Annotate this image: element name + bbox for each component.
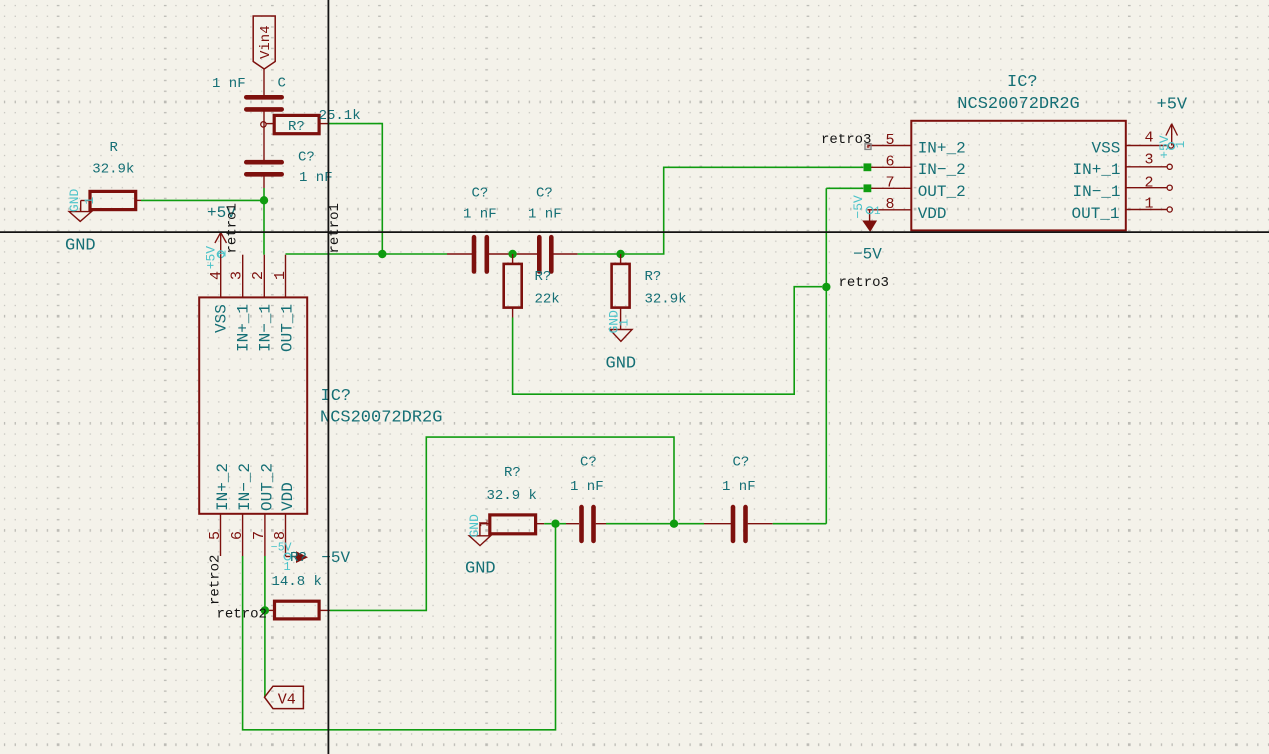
svg-text:IN+_1: IN+_1	[235, 304, 253, 352]
svg-text:IN−_2: IN−_2	[918, 161, 966, 179]
svg-text:1 nF: 1 nF	[212, 76, 246, 92]
svg-text:IN−_2: IN−_2	[236, 463, 254, 511]
wire C? down to node	[263, 174, 265, 188]
op-amp IC? NCS20072DR2G (right)	[911, 73, 1126, 230]
wire pin 7 down	[264, 556, 266, 697]
svg-text:IN−_1: IN−_1	[1073, 183, 1121, 201]
svg-text:VDD: VDD	[918, 205, 947, 223]
svg-text:25.1k: 25.1k	[319, 108, 361, 124]
wire to node	[489, 253, 509, 255]
pin 2 IN-_1	[250, 255, 274, 352]
capacitor C? 1nF (mid 2)	[528, 186, 562, 272]
power -5V (right IC pin 8)	[851, 195, 882, 264]
svg-text:−5V: −5V	[853, 246, 882, 264]
svg-text:C?: C?	[733, 455, 750, 471]
junction mid 2	[616, 250, 624, 258]
wire junction to cap	[560, 523, 566, 525]
svg-text:+5V: +5V	[1157, 96, 1188, 115]
junction retro2	[261, 606, 269, 614]
svg-text:GND: GND	[65, 236, 96, 255]
svg-text:R: R	[110, 140, 119, 156]
svg-text:+5V: +5V	[1157, 135, 1172, 159]
junction mid 1	[508, 250, 516, 258]
wire junction to cap (bottom 2)	[678, 523, 704, 525]
junction node	[260, 196, 268, 204]
svg-text:C: C	[278, 76, 286, 92]
resistor R? 25.1k	[261, 108, 361, 135]
svg-text:5: 5	[207, 531, 224, 540]
svg-text:8: 8	[272, 531, 289, 540]
pin 1 OUT_1	[272, 255, 297, 352]
resistor R? 14.8k	[269, 550, 330, 619]
svg-text:retro3: retro3	[839, 275, 889, 291]
svg-text:VSS: VSS	[213, 304, 231, 333]
wire C to C?	[263, 109, 265, 162]
wire cap to junction 2	[596, 523, 606, 525]
svg-text:IN−_1: IN−_1	[257, 304, 275, 352]
wire R? output	[329, 124, 382, 254]
svg-text:IC?: IC?	[321, 387, 352, 406]
svg-text:1 nF: 1 nF	[570, 479, 604, 495]
junction feedback	[378, 250, 386, 258]
svg-text:2: 2	[250, 271, 267, 280]
svg-text:IN+_1: IN+_1	[1073, 161, 1121, 179]
svg-text:Vin4: Vin4	[258, 25, 274, 59]
capacitor C 1nF	[212, 76, 286, 110]
svg-text:C?: C?	[536, 186, 553, 202]
junction bottom 2	[670, 520, 678, 528]
svg-text:R?: R?	[504, 465, 521, 481]
wire R to junction	[544, 523, 551, 525]
capacitor C? 1nF (bottom 2)	[722, 455, 756, 541]
svg-text:1: 1	[617, 319, 632, 327]
svg-text:−5V: −5V	[851, 195, 866, 219]
svg-text:retro2: retro2	[217, 607, 267, 623]
pin 7 OUT_2	[251, 463, 276, 556]
svg-text:OUT_2: OUT_2	[259, 463, 277, 511]
wire cap to retro3 vertical	[748, 523, 773, 525]
svg-text:IC?: IC?	[1007, 73, 1038, 92]
svg-text:5: 5	[886, 132, 895, 149]
pin 3 IN+_1	[228, 255, 252, 352]
svg-text:1 nF: 1 nF	[528, 207, 562, 223]
power +5V (right IC pin 4)	[1157, 96, 1189, 159]
svg-text:3: 3	[1145, 152, 1154, 169]
junction bottom 1	[551, 520, 559, 528]
svg-text:retro2: retro2	[208, 555, 224, 605]
svg-text:C?: C?	[472, 186, 489, 202]
wire retro3 vertical	[825, 188, 827, 523]
svg-text:1: 1	[272, 271, 289, 280]
resistor R? 22k	[504, 254, 560, 318]
svg-text:R?: R?	[290, 550, 307, 566]
svg-text:C?: C?	[298, 150, 315, 166]
svg-text:1: 1	[1174, 141, 1188, 149]
wire node2 right and up to IN-_2	[625, 167, 864, 254]
ground GND (bottom R)	[465, 514, 496, 579]
pin 2 IN-_1	[1073, 175, 1173, 202]
pin 6 IN-_2	[864, 153, 966, 179]
svg-text:C?: C?	[580, 455, 597, 471]
ground GND (left)	[65, 188, 97, 255]
svg-text:1 nF: 1 nF	[463, 207, 497, 223]
svg-text:GND: GND	[67, 188, 82, 212]
pin 3 IN+_1	[1073, 152, 1173, 180]
svg-text:VSS: VSS	[1092, 139, 1121, 157]
svg-text:V4: V4	[278, 691, 296, 708]
svg-text:4: 4	[1145, 130, 1154, 147]
svg-text:R?: R?	[288, 119, 305, 135]
svg-text:−5V: −5V	[321, 549, 350, 567]
svg-text:3: 3	[228, 271, 245, 280]
ground GND (mid)	[606, 310, 637, 374]
svg-text:retro1: retro1	[327, 203, 343, 253]
svg-text:1: 1	[1145, 195, 1154, 212]
wire OUT_2	[826, 187, 863, 189]
svg-text:GND: GND	[606, 355, 637, 374]
resistor R? 32.9k (mid)	[612, 254, 687, 318]
svg-text:NCS20072DR2G: NCS20072DR2G	[320, 408, 442, 427]
pin 4 VSS	[208, 255, 231, 333]
svg-text:1: 1	[874, 206, 881, 218]
svg-text:1: 1	[82, 197, 97, 205]
svg-text:2: 2	[1145, 175, 1154, 192]
svg-text:22k: 22k	[535, 292, 560, 308]
svg-text:R?: R?	[535, 269, 552, 285]
pin 6 IN-_2	[229, 463, 254, 556]
wire node to R	[141, 199, 264, 201]
pin 1 OUT_1	[1072, 195, 1173, 223]
hierarchical label V4	[265, 686, 304, 708]
svg-text:14.8 k: 14.8 k	[272, 574, 322, 590]
pin 5 IN+_2	[865, 132, 966, 158]
svg-text:7: 7	[886, 175, 895, 192]
resistor R 32.9k	[90, 140, 136, 210]
svg-text:NCS20072DR2G: NCS20072DR2G	[957, 95, 1079, 114]
svg-text:6: 6	[229, 531, 246, 540]
svg-text:R?: R?	[645, 269, 662, 285]
wire OUT_1 to mid chain	[286, 253, 383, 255]
capacitor C? 1nF (second)	[246, 150, 332, 187]
wire to cap C? (third)	[382, 253, 447, 255]
svg-text:VDD: VDD	[279, 482, 297, 511]
wire cap to node 2	[554, 253, 578, 255]
resistor R? 32.9 k (bottom)	[487, 465, 545, 534]
hierarchical label Vin4	[253, 16, 275, 69]
wire pin 6 down-right-up	[243, 524, 556, 730]
pin 8 VDD	[272, 482, 297, 556]
pin 8 VDD	[867, 196, 946, 223]
power +5V (left IC pin 4)	[204, 204, 237, 269]
svg-text:−5V: −5V	[271, 541, 292, 554]
svg-text:32.9 k: 32.9 k	[487, 488, 537, 504]
svg-text:retro3: retro3	[821, 132, 871, 148]
svg-text:6: 6	[886, 153, 895, 170]
capacitor C? 1nF (bottom 1)	[570, 455, 604, 541]
svg-text:OUT_1: OUT_1	[279, 304, 297, 352]
svg-text:IN+_2: IN+_2	[918, 139, 966, 157]
wire 22k to retro3 net	[513, 287, 822, 395]
op-amp IC? NCS20072DR2G (left)	[199, 297, 442, 513]
svg-text:8: 8	[886, 196, 895, 213]
wire R? 14.8k to feedback	[330, 437, 674, 610]
svg-text:7: 7	[251, 531, 268, 540]
pin 7 OUT_2	[864, 175, 966, 202]
svg-text:GND: GND	[465, 560, 496, 579]
capacitor C? 1nF (mid 1)	[463, 186, 497, 272]
svg-text:32.9k: 32.9k	[92, 161, 134, 177]
svg-text:retro1: retro1	[225, 203, 241, 253]
svg-text:4: 4	[208, 271, 225, 280]
svg-text:IN+_2: IN+_2	[214, 463, 232, 511]
pin 4 VSS	[1092, 130, 1174, 158]
svg-text:1 nF: 1 nF	[722, 479, 756, 495]
pin 5 IN+_2	[207, 463, 232, 556]
svg-text:32.9k: 32.9k	[645, 292, 687, 308]
svg-text:OUT_2: OUT_2	[918, 183, 966, 201]
power -5V (left IC pin 8)	[271, 541, 351, 574]
wire node to cap C? (fourth)	[517, 253, 540, 255]
svg-text:OUT_1: OUT_1	[1072, 205, 1120, 223]
wire Vin4 to C	[263, 69, 265, 96]
junction retro3	[822, 283, 830, 291]
